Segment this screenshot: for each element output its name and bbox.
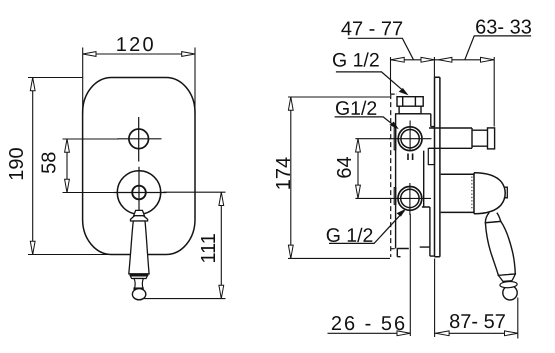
dim 120 line	[83, 53, 195, 55]
svg-text:120: 120	[116, 34, 156, 56]
dim 120 extension lines	[83, 48, 195, 115]
dim 26-56 line	[328, 332, 411, 334]
hidden top edge (dashed)	[391, 93, 397, 95]
arrow 111 top	[219, 192, 224, 205]
lever collar (front)	[131, 216, 148, 221]
top diverter knob circle	[129, 129, 149, 149]
top dim extension left	[390, 57, 392, 94]
arrow 120 right	[182, 52, 195, 57]
leader G1/2 top	[336, 72, 407, 94]
lever stem (front)	[134, 279, 143, 289]
arrow 111 bottom	[219, 285, 224, 298]
lever tip collar (side)	[500, 282, 517, 288]
wall mounting plate	[435, 77, 440, 256]
arrow 63-33 right	[481, 57, 494, 62]
mid port circle inner	[401, 130, 419, 148]
front escutcheon plate	[83, 78, 195, 255]
arrow 64 bottom	[356, 185, 361, 198]
arrow 87-57 right	[505, 331, 518, 336]
arrow 58 top	[65, 139, 70, 152]
bottom port circle inner	[401, 189, 419, 207]
top inlet nut base	[399, 106, 421, 114]
top dim line	[391, 59, 495, 61]
bottom dim extension a	[409, 214, 411, 336]
arrow 174 top	[288, 97, 293, 110]
arrow 47-77 left	[391, 57, 404, 62]
arrow 58 bottom	[65, 179, 70, 192]
svg-text:64: 64	[334, 156, 356, 178]
leader G1/2 mid	[335, 117, 397, 127]
bottom dim extension c	[517, 298, 519, 339]
box below pipe	[428, 148, 434, 164]
top dim extension right	[493, 57, 495, 127]
svg-text:190: 190	[6, 147, 28, 180]
svg-text:111: 111	[198, 233, 220, 263]
bottom handle hub circle	[132, 186, 146, 200]
svg-text:63- 33: 63- 33	[475, 16, 532, 38]
lever body bottom edge (front)	[130, 274, 149, 276]
hidden body back edge (dashed)	[390, 94, 392, 257]
arrow 47-77 right	[421, 57, 434, 62]
lever neck (front)	[134, 210, 145, 215]
svg-text:174: 174	[273, 157, 295, 190]
dim 174 line	[290, 97, 292, 258]
outlet pipe end cap	[488, 128, 495, 149]
leader arrowhead G1/2 mid	[389, 122, 399, 130]
arrow 64 top	[356, 139, 361, 152]
body right edge mid	[422, 151, 430, 248]
dim 87-57 line	[435, 332, 518, 334]
mid circle centerlines	[389, 121, 432, 152]
arrow 174 bottom	[288, 245, 293, 258]
dim 58 extension lines	[63, 139, 120, 193]
dim 174 extensions	[288, 97, 390, 258]
hidden bottom edge (dashed)	[391, 248, 398, 250]
dim 64 line	[357, 139, 359, 199]
leader arrowhead G1/2 bottom	[397, 209, 407, 217]
arrow 190 bottom	[30, 241, 35, 254]
body left tab upper	[394, 128, 396, 150]
mid port circle G1/2 outer	[398, 127, 422, 151]
leader 47-77	[348, 38, 414, 60]
dim 111 extension lines	[144, 192, 226, 298]
svg-text:G 1/2: G 1/2	[332, 50, 380, 72]
body left tab lower	[394, 188, 396, 205]
dim 64 extensions	[355, 139, 391, 199]
bottom circle centerlines	[114, 167, 167, 211]
dim 58 line	[66, 139, 68, 193]
svg-text:87- 57: 87- 57	[449, 311, 506, 333]
bottom port circle G1/2 outer	[398, 187, 422, 211]
dim 190 line	[32, 78, 34, 255]
top inlet nut G1/2	[397, 97, 423, 107]
lever bottom neck (side)	[498, 274, 515, 281]
top dim extension mid	[433, 57, 435, 77]
arrow 87-57 left	[436, 331, 449, 336]
lever joint collar (side)	[485, 212, 500, 223]
arrow 63-33 left	[439, 57, 452, 62]
arrow 26-56 right	[397, 331, 410, 336]
tick marks below mid circle	[408, 154, 413, 161]
body bottom edge	[397, 249, 409, 257]
svg-text:26 - 56: 26 - 56	[331, 313, 407, 335]
arrow 120 left	[83, 52, 96, 57]
leader arrowhead G1/2 top	[399, 88, 409, 95]
body bottom-right step	[420, 247, 435, 256]
leader G1/2 bottom	[329, 211, 404, 244]
handle dome cap	[474, 173, 505, 214]
svg-text:G1/2: G1/2	[335, 98, 377, 120]
svg-text:G 1/2: G 1/2	[326, 225, 374, 247]
body top-right step	[431, 114, 435, 127]
bottom circle centerlines	[389, 183, 431, 215]
svg-text:58: 58	[39, 152, 61, 174]
lever body (front)	[129, 221, 149, 274]
lever ball (front)	[132, 289, 145, 300]
dome apex knob	[504, 187, 507, 198]
top circle centerlines	[118, 117, 162, 162]
arrow 190 top	[30, 78, 35, 91]
lever tip ring (front)	[134, 288, 143, 291]
svg-text:47 - 77: 47 - 77	[341, 18, 403, 40]
bottom handle rosette circle	[117, 171, 160, 214]
leader 63-33	[465, 36, 531, 60]
handle base cylinder	[441, 173, 474, 214]
valve body outline	[396, 114, 431, 249]
lever skirt (front)	[130, 276, 147, 279]
base cylinder shading	[471, 177, 473, 211]
dim 111 line	[220, 192, 222, 298]
lever body (side)	[485, 221, 515, 275]
dim 190 extension lines	[28, 78, 113, 255]
outlet pipe through wall	[429, 128, 472, 148]
lever ball (side)	[503, 286, 517, 300]
bottom dim extension b	[434, 259, 436, 338]
outlet pipe step	[472, 130, 488, 146]
